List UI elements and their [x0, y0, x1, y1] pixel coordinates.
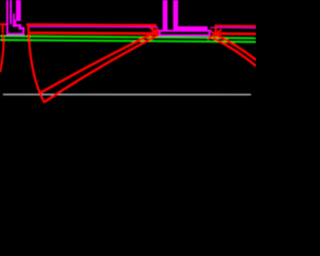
left column base bottom plate — [7, 33, 25, 35]
left column step lower flange — [19, 27, 25, 30]
wire: left diagonal tie upper — [40, 30, 159, 93]
bracket: right column left red clip — [152, 26, 154, 35]
wire: magenta rail line M1 right stub — [211, 27, 257, 30]
wire: red arc at left edge — [0, 34, 3, 72]
right column wall B — [173, 0, 178, 27]
left column tube2 right edge bar — [16, 0, 21, 21]
wire: red lower beam line R2 right stub — [213, 32, 256, 35]
left column tube2 lower wall widening — [13, 20, 16, 27]
bracket: right column left X diagonal a — [148, 29, 159, 38]
wire: magenta rail line M1 mid span — [29, 26, 158, 29]
left column step upper flange — [13, 24, 22, 27]
wire: gray horizontal line — [3, 94, 251, 96]
wire: red lower beam line R2 mid span — [29, 32, 158, 35]
left column base right edge — [22, 27, 24, 35]
bracket: left column left red clip — [2, 25, 4, 33]
bracket: right column right red clip — [215, 25, 217, 37]
wire: green line G2 — [0, 40, 256, 42]
wire: left diagonal tie lower — [45, 34, 162, 103]
bracket: right column right X diagonal b — [209, 30, 220, 38]
right column step flange — [173, 26, 207, 30]
right column base plate — [160, 31, 210, 36]
left column tube2 left edge line — [13, 14, 15, 27]
left column step vertical — [19, 24, 22, 29]
right column wall A — [163, 0, 168, 31]
wire: green line G1 — [0, 36, 256, 38]
wire: red beam line R1 right stub — [215, 25, 257, 28]
bracket: right column right X diagonal a — [208, 30, 222, 40]
left column wall line 1 (outer left face + base left edge) — [6, 0, 8, 35]
wire: red arc from left base down to V — [28, 25, 44, 103]
wire: right diagonal tie upper — [214, 34, 257, 61]
left column wall line 2 (inner left face) — [10, 0, 12, 24]
wire: right diagonal tie lower — [213, 38, 256, 66]
bracket: right column left X diagonal b — [150, 28, 159, 36]
wire: red beam line R1 mid span — [26, 23, 156, 26]
wire: red beam line R1 left stub — [0, 23, 8, 25]
